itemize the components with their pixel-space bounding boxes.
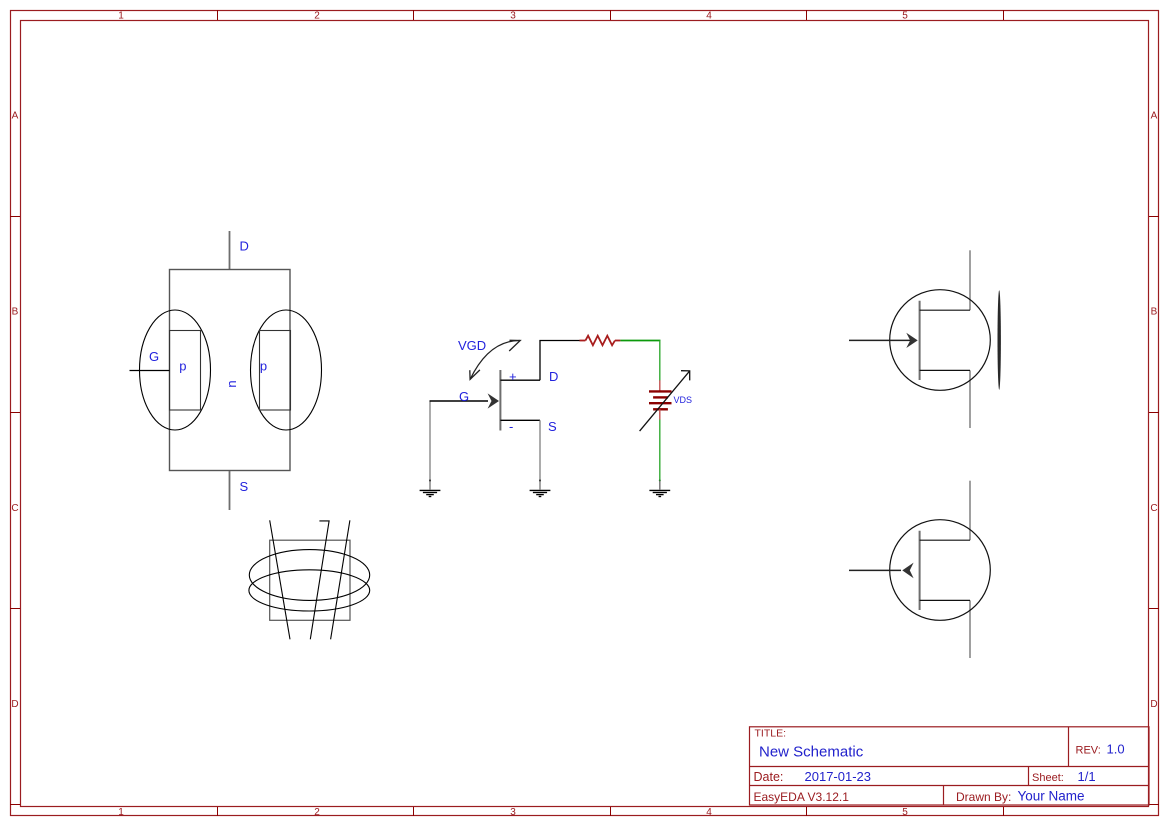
- wire gate horizontal: [430, 400, 489, 402]
- wire gate lead: [130, 370, 170, 372]
- svg-text:Your Name: Your Name: [1018, 789, 1085, 804]
- wire source lead bottom: [229, 471, 231, 510]
- JFET Q3 source pin: [969, 600, 971, 658]
- curved arrow VGD: [470, 340, 520, 379]
- battery VDS lead bottom: [659, 409, 661, 419]
- channel body rectangle: [170, 270, 291, 471]
- coil turn ellipse upper: [249, 550, 369, 601]
- ruler numbers top: [118, 11, 908, 22]
- JFET Q3 source horizontal: [920, 599, 970, 601]
- svg-text:Drawn By:: Drawn By:: [956, 790, 1011, 804]
- svg-text:5: 5: [902, 807, 908, 818]
- left p-region rectangle: [170, 331, 201, 411]
- svg-text:B: B: [1151, 307, 1158, 318]
- svg-text:VGD: VGD: [458, 338, 486, 353]
- JFET Q2 drain horizontal: [920, 309, 970, 311]
- resistor R1 lead left: [580, 340, 586, 342]
- svg-text:B: B: [12, 307, 19, 318]
- svg-text:C: C: [11, 503, 18, 514]
- svg-text:+: +: [509, 369, 517, 384]
- svg-text:S: S: [548, 419, 557, 434]
- variable arrow head: [681, 371, 690, 381]
- coil core rectangle: [270, 540, 350, 620]
- title block outline: [750, 727, 1150, 805]
- ground stub S net: [539, 480, 541, 490]
- ruler ticks top: [218, 10, 1004, 20]
- ruler ticks right: [1149, 217, 1159, 805]
- JFET Q3 drain pin: [969, 481, 971, 541]
- svg-text:n: n: [224, 380, 239, 387]
- svg-text:New Schematic: New Schematic: [759, 744, 864, 761]
- ground symbol middle: [530, 490, 551, 496]
- svg-text:-: -: [509, 419, 513, 434]
- ground stub G net: [429, 480, 431, 490]
- JFET Q1 source horizontal: [500, 419, 540, 421]
- svg-text:Sheet:: Sheet:: [1032, 772, 1064, 784]
- svg-text:p: p: [179, 359, 186, 374]
- battery VDS plate 3 long: [649, 402, 672, 404]
- curved arrow head bottom: [470, 370, 480, 380]
- svg-text:D: D: [11, 699, 18, 710]
- junction dot VDS net: [659, 479, 661, 481]
- wire top horizontal: [539, 340, 580, 342]
- wire drain lead top: [229, 231, 231, 269]
- battery VDS plate 4 short: [653, 408, 668, 410]
- svg-text:D: D: [549, 369, 558, 384]
- JFET Q1 drain horizontal: [500, 379, 540, 381]
- svg-text:G: G: [149, 349, 159, 364]
- title block rev divider: [1068, 727, 1070, 767]
- JFET Q3 gate bar: [919, 531, 921, 610]
- title block sheet divider: [1028, 767, 1030, 786]
- svg-text:3: 3: [510, 11, 516, 22]
- svg-text:VDS: VDS: [674, 395, 693, 405]
- title block row line 2: [750, 785, 1150, 787]
- svg-text:TITLE:: TITLE:: [755, 728, 787, 740]
- coil lead line left: [270, 520, 290, 639]
- svg-text:4: 4: [706, 807, 712, 818]
- JFET Q3 gate arrowhead: [902, 563, 913, 579]
- svg-text:2017-01-23: 2017-01-23: [805, 769, 872, 784]
- wire green vertical upper: [659, 341, 661, 381]
- JFET Q3 gate wire: [849, 569, 901, 571]
- right p-region rectangle: [260, 331, 291, 411]
- svg-text:3: 3: [510, 807, 516, 818]
- svg-text:A: A: [12, 110, 19, 121]
- ground symbol right: [649, 490, 670, 496]
- battery VDS plate 1 long: [649, 390, 672, 392]
- resistor R1 lead right: [615, 340, 621, 342]
- ruler letters left: [11, 110, 18, 710]
- variable arrow through battery: [640, 371, 690, 431]
- svg-text:REV:: REV:: [1076, 745, 1101, 757]
- svg-text:D: D: [240, 239, 249, 254]
- wire source vertical: [539, 420, 541, 482]
- ground stub VDS net: [659, 480, 661, 489]
- svg-text:S: S: [240, 479, 249, 494]
- svg-text:2: 2: [314, 807, 320, 818]
- svg-text:2: 2: [314, 11, 320, 22]
- ruler ticks bottom: [218, 807, 1004, 816]
- left gate ellipse: [140, 310, 211, 430]
- title block drawnby divider: [943, 786, 945, 806]
- JFET Q2 source horizontal: [920, 369, 970, 371]
- JFET Q1 gate bar: [499, 370, 501, 431]
- ground symbol left: [420, 490, 441, 496]
- junction dot S net: [539, 479, 541, 481]
- ruler numbers bottom: [118, 807, 908, 818]
- junction dot G net: [429, 479, 431, 481]
- svg-text:G: G: [459, 389, 469, 404]
- svg-text:1: 1: [118, 11, 124, 22]
- wire green vertical lower: [659, 420, 661, 481]
- JFET Q2 drain pin: [969, 250, 971, 310]
- ruler letters right: [1150, 110, 1157, 710]
- coil lead line middle with hook: [310, 521, 329, 639]
- ruler ticks left: [10, 217, 20, 805]
- svg-text:4: 4: [706, 11, 712, 22]
- capacitor plate bar right of Q2: [998, 290, 1001, 390]
- curved arrow head top: [509, 340, 520, 351]
- wire gate vertical: [429, 402, 431, 483]
- wire drain vertical: [539, 341, 541, 381]
- wire green horizontal: [620, 340, 660, 342]
- svg-text:A: A: [1151, 110, 1158, 121]
- svg-text:1/1: 1/1: [1078, 769, 1096, 784]
- gate arrowhead Q1: [488, 393, 499, 408]
- svg-text:D: D: [1150, 699, 1157, 710]
- coil turn ellipse lower: [249, 570, 370, 611]
- battery VDS lead top: [659, 380, 661, 391]
- JFET Q2 circle: [890, 290, 991, 391]
- JFET Q2 source pin: [969, 370, 971, 428]
- svg-text:1.0: 1.0: [1107, 742, 1125, 757]
- svg-text:5: 5: [902, 11, 908, 22]
- coil lead line right: [331, 520, 350, 639]
- JFET Q3 circle: [890, 520, 991, 621]
- right gate ellipse: [251, 310, 322, 430]
- battery VDS plate 2 short: [653, 396, 668, 398]
- svg-text:p: p: [260, 359, 267, 374]
- JFET Q2 gate wire: [849, 339, 914, 341]
- title block row line 1: [750, 766, 1150, 768]
- svg-text:EasyEDA V3.12.1: EasyEDA V3.12.1: [754, 790, 850, 804]
- resistor R1 zigzag: [585, 336, 615, 346]
- svg-text:1: 1: [118, 807, 124, 818]
- JFET Q2 gate bar: [919, 301, 921, 380]
- JFET Q2 gate arrowhead: [906, 333, 917, 348]
- JFET Q3 drain horizontal: [920, 539, 970, 541]
- svg-text:Date:: Date:: [754, 770, 784, 784]
- svg-text:C: C: [1150, 503, 1157, 514]
